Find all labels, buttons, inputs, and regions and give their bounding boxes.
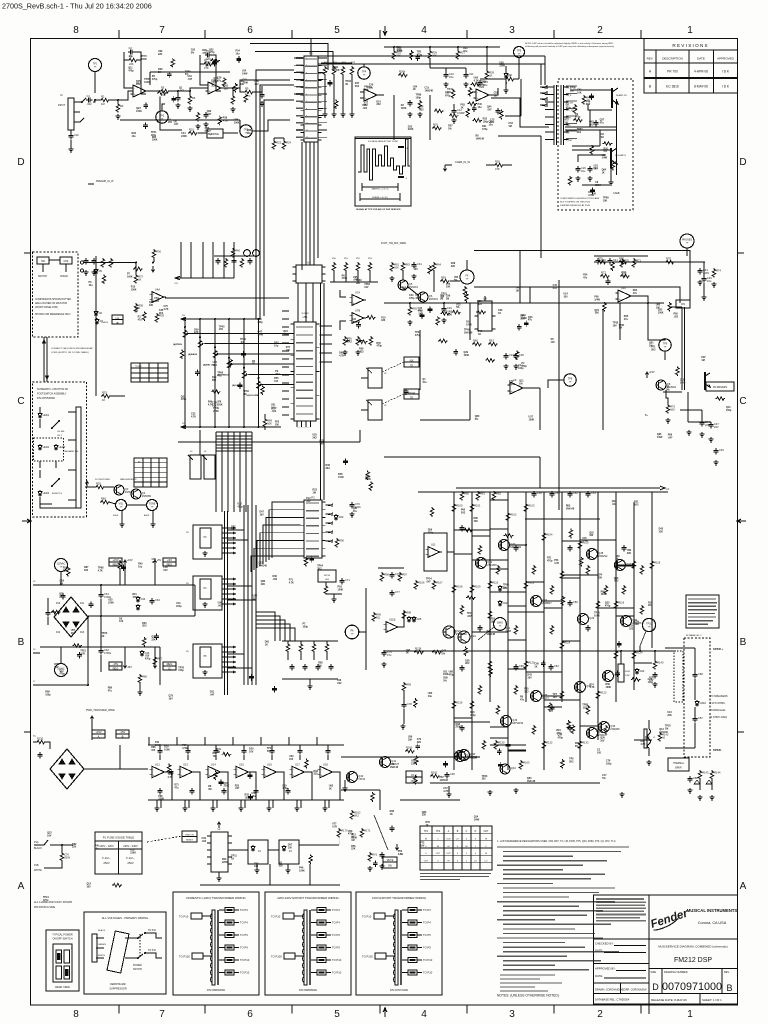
waveform trace [358, 139, 410, 180]
op-amp U1A [133, 85, 146, 97]
resistor R71 [632, 258, 636, 268]
svg-text:R90: R90 [339, 539, 344, 543]
svg-text:DRIVE: DRIVE [211, 132, 219, 136]
svg-text:R107: R107 [436, 581, 443, 585]
svg-text:P/N 0068064000: P/N 0068064000 [207, 989, 226, 992]
svg-text:100p: 100p [257, 321, 263, 324]
svg-text:C33: C33 [447, 306, 452, 310]
wire R2 to U1A [109, 91, 133, 100]
svg-text:470p: 470p [415, 334, 421, 337]
transistor Q26 [501, 716, 512, 727]
resistor R100 [452, 503, 456, 513]
svg-text:220K: 220K [217, 403, 223, 406]
svg-text:TIP32: TIP32 [470, 755, 477, 759]
node TP4 [358, 67, 370, 79]
transistor Q6 [418, 292, 428, 302]
svg-text:4.7K: 4.7K [589, 686, 594, 689]
resistor R78 [665, 260, 675, 264]
IC U5 bottom pins [297, 421, 311, 427]
svg-text:1K: 1K [329, 788, 332, 791]
svg-text:470p: 470p [132, 596, 138, 599]
svg-text:100: 100 [119, 620, 124, 623]
svg-text:.022: .022 [614, 580, 619, 583]
svg-text:R144: R144 [714, 771, 721, 775]
ground [340, 112, 345, 117]
svg-text:U17: U17 [295, 762, 300, 766]
connector P2 interior [306, 502, 319, 504]
svg-text:2K2: 2K2 [589, 123, 594, 126]
resistor R38 [134, 303, 138, 313]
svg-text:47u: 47u [108, 689, 113, 692]
resistor R82 [492, 491, 496, 501]
svg-text:220K: 220K [130, 851, 136, 854]
svg-text:TAILBAND SW: TAILBAND SW [64, 450, 78, 453]
svg-text:4.7K: 4.7K [332, 825, 337, 828]
svg-text:1M: 1M [665, 727, 668, 730]
svg-text:10K: 10K [594, 312, 599, 315]
svg-text:100: 100 [414, 268, 419, 271]
resistor R39 [155, 313, 159, 323]
resistor R2 [100, 98, 110, 102]
jack stub pins left [80, 261, 83, 264]
svg-text:2K2: 2K2 [355, 85, 360, 88]
svg-text:1K: 1K [265, 643, 268, 646]
svg-text:FM212 DSP: FM212 DSP [674, 957, 712, 964]
svg-text:R130: R130 [498, 741, 505, 745]
transistor Q32 [615, 560, 626, 571]
svg-text:1/4W: 1/4W [258, 333, 264, 336]
resistor group pa4 [488, 660, 492, 670]
transistor Q42 [459, 750, 470, 761]
ground [619, 792, 624, 797]
svg-text:R6: R6 [192, 96, 196, 100]
wire ps h4 [40, 684, 88, 686]
inner dashed box [34, 438, 64, 461]
svg-text:10u: 10u [481, 84, 486, 87]
svg-text:1N4003: 1N4003 [101, 322, 109, 324]
svg-text:-: - [321, 767, 322, 771]
capacitor C35 [515, 353, 517, 356]
capacitor C88 [689, 776, 691, 779]
svg-text:R112: R112 [528, 581, 535, 585]
svg-text:R100: R100 [456, 504, 463, 508]
ground [187, 106, 192, 111]
svg-text:TO P10: TO P10 [240, 958, 250, 962]
svg-text:2700S_RevB.sch-1 - Thu Jul 20: 2700S_RevB.sch-1 - Thu Jul 20 16:34:20 2… [2, 2, 152, 11]
svg-text:47p: 47p [129, 54, 134, 58]
svg-text:22K: 22K [151, 639, 156, 642]
resistor R104 [542, 532, 546, 542]
svg-text:220K: 220K [499, 64, 505, 67]
ground [266, 806, 271, 811]
wire reverb drop [701, 410, 703, 420]
resistor R114 [560, 640, 564, 650]
capacitor C85 output [654, 672, 656, 675]
ground [210, 806, 215, 811]
svg-text:1M: 1M [508, 125, 511, 128]
svg-text:47u: 47u [346, 777, 351, 780]
svg-text:REG: REG [167, 662, 173, 666]
svg-text:TO P105: TO P105 [179, 955, 190, 959]
svg-text:ALL 4-WIRE AND 6-WAY SHOWN: ALL 4-WIRE AND 6-WAY SHOWN [34, 901, 72, 904]
svg-text:-15V: -15V [113, 662, 119, 666]
svg-text:470p: 470p [59, 672, 65, 675]
svg-text:BLACK: BLACK [34, 847, 42, 850]
svg-text:R67: R67 [489, 339, 494, 343]
svg-text:1K: 1K [425, 824, 428, 827]
svg-text:470p: 470p [376, 345, 382, 348]
ground [443, 82, 448, 87]
long bus pair right of U5 [320, 283, 322, 500]
svg-text:FOOTSWITCH ASSEMBLY: FOOTSWITCH ASSEMBLY [37, 393, 67, 396]
ground [665, 418, 670, 423]
svg-text:+15V: +15V [649, 370, 655, 374]
svg-text:+: + [321, 773, 323, 777]
svg-text:10K: 10K [356, 282, 361, 285]
svg-text:.022: .022 [362, 107, 367, 110]
svg-text:B: B [122, 734, 124, 738]
svg-text:R116: R116 [618, 601, 625, 605]
ground [575, 176, 580, 181]
diode D25 [412, 616, 416, 623]
transistor Q35 [599, 722, 610, 733]
svg-text:TP2: TP2 [160, 115, 165, 118]
svg-text:PWR ON: PWR ON [185, 835, 194, 837]
svg-text:R160: R160 [406, 746, 413, 750]
resistor R72 [600, 274, 610, 278]
svg-text:CH 1: CH 1 [57, 435, 63, 437]
svg-text:TO P10: TO P10 [362, 915, 372, 919]
svg-text:47u: 47u [463, 50, 468, 53]
jack pin stubs outside [540, 86, 547, 107]
svg-text:100K: 100K [606, 686, 612, 689]
resistor R170 [337, 828, 341, 838]
ground [381, 662, 386, 667]
bridge rectifier D30 [50, 749, 84, 789]
svg-text:CAEB_IN_W: CAEB_IN_W [455, 160, 471, 164]
ground [285, 868, 290, 873]
svg-text:1/4W: 1/4W [242, 72, 248, 75]
resistor R31 [505, 77, 515, 81]
svg-text:120VAC: 120VAC [57, 563, 66, 566]
svg-text:2K2: 2K2 [159, 312, 164, 315]
wire top-mid bus [384, 46, 500, 48]
svg-text:MPSW42: MPSW42 [512, 721, 524, 725]
node TP5 [514, 47, 525, 58]
svg-text:R126: R126 [456, 701, 463, 705]
ground [202, 602, 207, 607]
program table [131, 363, 168, 382]
ground [379, 864, 384, 869]
svg-text:220K: 220K [595, 184, 601, 187]
svg-text:U7A: U7A [355, 291, 360, 295]
right of U5 resistor column [332, 262, 336, 272]
svg-text:470p: 470p [237, 506, 243, 509]
ground [652, 682, 657, 687]
Fender logo [649, 907, 690, 931]
svg-text:R87: R87 [157, 657, 162, 661]
wire drive to connector [252, 120, 290, 131]
ground [322, 112, 327, 117]
wire bus to TP9 [648, 303, 665, 340]
svg-text:DRAWN: CORONA/DWG: DRAWN: CORONA/DWG [595, 989, 624, 992]
power amp input op-amp box [424, 533, 447, 571]
drive level box [207, 129, 223, 138]
svg-text:22K: 22K [667, 714, 672, 717]
svg-text:47u: 47u [583, 276, 588, 279]
svg-text:100p: 100p [178, 669, 184, 672]
wire long return zone C [178, 441, 360, 443]
svg-text:R133: R133 [582, 741, 589, 745]
svg-text:C1b: C1b [74, 133, 79, 137]
svg-text:.047: .047 [235, 787, 240, 790]
svg-text:.047: .047 [210, 694, 215, 697]
svg-text:47u: 47u [528, 319, 533, 322]
wires relay grid [565, 126, 616, 128]
svg-text:U12: U12 [155, 762, 160, 766]
svg-text:DOMESTIC (120V) TRANSFORMER W: DOMESTIC (120V) TRANSFORMER WIRING [186, 896, 246, 900]
svg-text:220K: 220K [158, 798, 164, 801]
wire extra pa horizontals [454, 529, 490, 531]
resistor R81 [476, 491, 480, 501]
connector P5 [304, 56, 318, 142]
transistor Q30 [575, 682, 586, 693]
svg-text:0070971000: 0070971000 [662, 981, 722, 993]
svg-text:22u: 22u [449, 75, 454, 79]
svg-text:A: A [18, 881, 25, 892]
resistor RP20 [514, 685, 518, 695]
svg-text:D: D [17, 157, 24, 168]
diode D6 [94, 310, 98, 317]
svg-text:470p: 470p [445, 95, 451, 98]
ground [154, 806, 159, 811]
svg-text:R78: R78 [666, 257, 671, 261]
transistor Q8 [656, 380, 666, 390]
svg-text:ALL VOLTAGES - PRIMARY WIRING: ALL VOLTAGES - PRIMARY WIRING [102, 916, 149, 920]
diode D22 [498, 600, 502, 607]
capacitor C12 [453, 108, 455, 111]
svg-text:BIAS: BIAS [497, 622, 503, 625]
svg-text:C: C [739, 396, 746, 407]
power on reset box [182, 831, 197, 842]
wire fx jack link [450, 280, 460, 282]
resistor R160 [405, 749, 415, 753]
wire TP5 down [520, 79, 522, 116]
svg-text:-: - [237, 767, 238, 771]
svg-text:10u: 10u [478, 106, 483, 109]
svg-text:1N4148: 1N4148 [476, 137, 485, 140]
svg-text:1K: 1K [345, 83, 348, 86]
svg-text:+5V: +5V [157, 558, 162, 562]
svg-text:330: 330 [279, 864, 284, 867]
svg-text:FERRITE EMI: FERRITE EMI [110, 983, 126, 986]
svg-text:+O: +O [666, 488, 669, 491]
svg-text:2K2: 2K2 [586, 103, 591, 106]
ground [407, 112, 412, 117]
ground [686, 430, 691, 435]
svg-text:5: 5 [334, 1009, 340, 1020]
svg-text:TP4: TP4 [362, 71, 367, 74]
svg-text:470p: 470p [557, 736, 563, 739]
op-amp U11 [428, 547, 440, 558]
svg-text:SPKR -: SPKR - [713, 748, 723, 752]
transistor Q29 [578, 614, 589, 625]
choke L2 [211, 832, 228, 872]
ground [697, 280, 702, 285]
wire bus verticals center [243, 505, 245, 685]
capacitor CP18 [461, 665, 463, 668]
resistor R29 [432, 126, 442, 130]
svg-text:U15: U15 [239, 762, 244, 766]
resistor R25 [392, 50, 396, 60]
pot circles top right [244, 250, 251, 257]
svg-text:-: - [209, 767, 210, 771]
svg-text:+: + [365, 96, 367, 100]
capacitor C60 [47, 610, 49, 613]
resistor R37 [134, 274, 138, 284]
svg-text:+: + [153, 773, 155, 777]
dc voltages note box [406, 771, 422, 783]
svg-text:47u: 47u [174, 787, 179, 790]
svg-text:22K: 22K [194, 331, 199, 334]
transistor Q4 [131, 489, 141, 499]
capacitor C71 [341, 578, 343, 581]
svg-text:1N4148: 1N4148 [352, 321, 361, 324]
transformer wiring box 100V EXPORT TRANSFORMER WIRING [356, 892, 442, 995]
svg-text:100: 100 [275, 423, 280, 426]
wires P5 down to U6 [305, 142, 307, 265]
resistor R68 [263, 418, 267, 428]
svg-text:R63: R63 [405, 263, 410, 267]
svg-text:16V: 16V [594, 168, 599, 171]
svg-text:R106: R106 [418, 581, 425, 585]
svg-text:100: 100 [288, 847, 293, 850]
svg-text:R143: R143 [702, 771, 709, 775]
resistor R107 [432, 580, 436, 590]
fx return jack [368, 400, 382, 420]
resistor RP23 [604, 725, 608, 735]
svg-text:CHK: CHK [63, 260, 68, 263]
resistor R6 vertical [188, 95, 192, 105]
svg-text:C35: C35 [519, 353, 524, 357]
revisions table [644, 39, 738, 94]
svg-text:C86: C86 [698, 672, 703, 676]
svg-text:TO P10: TO P10 [179, 915, 189, 919]
capacitor C52 [569, 491, 571, 494]
rv drivers label box [706, 382, 734, 391]
svg-text:REV.: REV. [647, 57, 654, 61]
svg-text:SAMPLE = 2.0 ms: SAMPLE = 2.0 ms [371, 188, 388, 191]
svg-text:+: + [134, 92, 136, 96]
svg-text:TP/DSP: TP/DSP [135, 366, 143, 368]
svg-text:100: 100 [151, 749, 156, 752]
svg-text:16V: 16V [249, 751, 254, 754]
svg-text:Q24: Q24 [471, 634, 476, 638]
wire pa bottom rail [430, 782, 600, 784]
svg-text:.022: .022 [612, 503, 617, 506]
svg-text:SPKR +: SPKR + [713, 647, 724, 651]
svg-text:10u: 10u [236, 52, 241, 55]
svg-text:2N5B07: 2N5B07 [542, 601, 552, 605]
ground [708, 437, 713, 442]
op-amp U4A [152, 292, 164, 303]
ground [713, 460, 718, 465]
resistor R105 [578, 540, 582, 550]
node TP10 [642, 618, 655, 631]
svg-text:OUT: OUT [436, 853, 441, 855]
svg-text:R109: R109 [474, 585, 481, 589]
component row right mid [217, 258, 219, 261]
svg-text:2SC806: 2SC806 [487, 563, 497, 567]
svg-text:2K2: 2K2 [577, 131, 582, 134]
capacitor C31 [413, 262, 415, 265]
svg-text:1M: 1M [649, 344, 652, 347]
svg-text:100K: 100K [141, 58, 147, 61]
svg-text:1K: 1K [602, 171, 605, 174]
transformer core [395, 910, 398, 985]
resistor R64 [432, 262, 436, 272]
relay K2 [279, 840, 299, 864]
svg-text:B: B [726, 983, 732, 993]
svg-text:22K: 22K [261, 583, 266, 586]
svg-text:+: + [429, 553, 431, 557]
svg-text:RESET: RESET [186, 840, 194, 842]
svg-text:.022: .022 [202, 840, 207, 843]
wires U5 up [297, 283, 299, 322]
svg-text:P2: P2 [311, 496, 315, 500]
svg-text:4.7K: 4.7K [443, 790, 448, 793]
resistor R128 [414, 650, 424, 654]
value label +15V REG [109, 558, 122, 566]
wire U4A out long [165, 297, 289, 299]
svg-text:R36: R36 [156, 250, 161, 254]
svg-text:100K: 100K [131, 289, 137, 292]
svg-text:.047: .047 [467, 615, 472, 618]
supply arrow +15V [124, 560, 127, 566]
svg-text:U6: U6 [307, 261, 311, 265]
wire pot 1 to IC [205, 343, 295, 345]
extra wires zone C mid [199, 430, 201, 455]
transistor Q34 [603, 671, 614, 682]
svg-text:10K: 10K [446, 286, 451, 289]
svg-text:MUSICAL INSTRUMENTS: MUSICAL INSTRUMENTS [687, 908, 738, 913]
svg-text:2K2: 2K2 [312, 436, 317, 439]
resistor R33 [101, 394, 111, 398]
resistor R110 [488, 580, 492, 590]
diode D23 [635, 668, 639, 675]
svg-text:R30: R30 [495, 160, 500, 164]
svg-text:+: + [209, 89, 211, 93]
U5 dense pins [282, 311, 289, 415]
svg-text:R101: R101 [474, 504, 481, 508]
svg-text:22K: 22K [451, 265, 456, 268]
svg-text:PA: PA [350, 630, 353, 633]
svg-text:220K: 220K [108, 601, 114, 604]
wire ps verticals [87, 617, 89, 685]
capacitor C45 [715, 448, 717, 451]
wire pa rail3 [525, 518, 600, 520]
svg-text:INPUT: INPUT [58, 104, 66, 107]
wires relay lower [572, 149, 611, 151]
resistor RP14 [550, 625, 554, 635]
svg-text:2K2: 2K2 [524, 690, 529, 693]
ground [203, 122, 208, 127]
svg-text:10K: 10K [364, 88, 369, 91]
capacitor C43 [699, 268, 701, 271]
svg-text:CORP: CORONA/DW: CORP: CORONA/DW [622, 989, 647, 992]
node TP1 [89, 59, 102, 72]
svg-text:47u: 47u [633, 292, 638, 295]
